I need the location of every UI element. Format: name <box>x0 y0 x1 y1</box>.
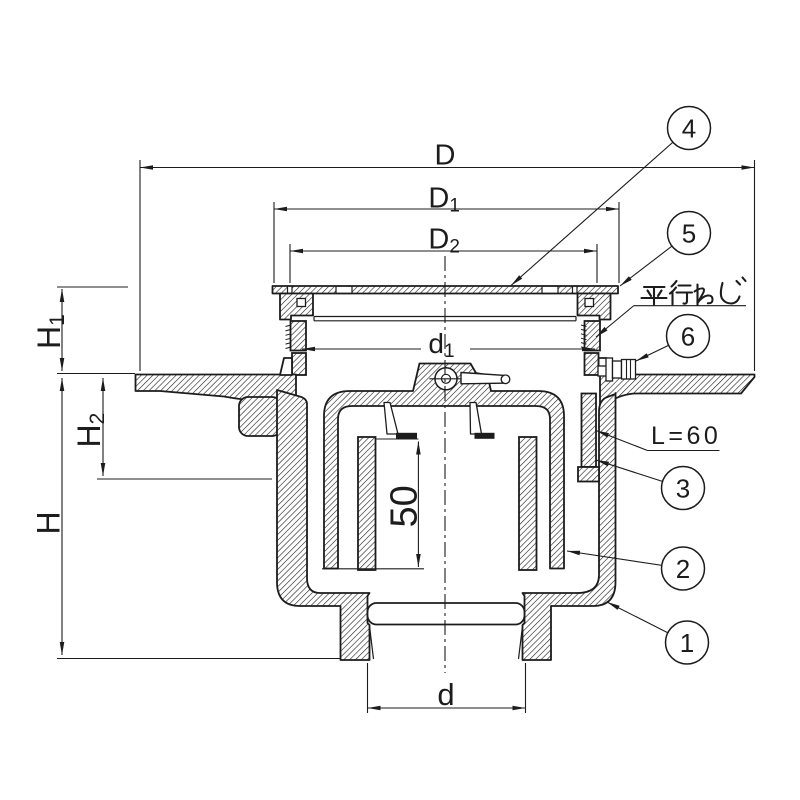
svg-text:H: H <box>31 511 67 534</box>
svg-text:1: 1 <box>680 628 694 658</box>
svg-text:6: 6 <box>681 322 695 352</box>
svg-text:L=60: L=60 <box>651 422 721 450</box>
svg-text:d: d <box>437 677 454 712</box>
svg-text:3: 3 <box>676 474 690 504</box>
svg-text:2: 2 <box>676 554 690 584</box>
svg-text:5: 5 <box>682 219 696 249</box>
svg-text:4: 4 <box>682 114 696 144</box>
svg-text:D: D <box>435 140 456 172</box>
svg-text:50: 50 <box>384 485 426 527</box>
